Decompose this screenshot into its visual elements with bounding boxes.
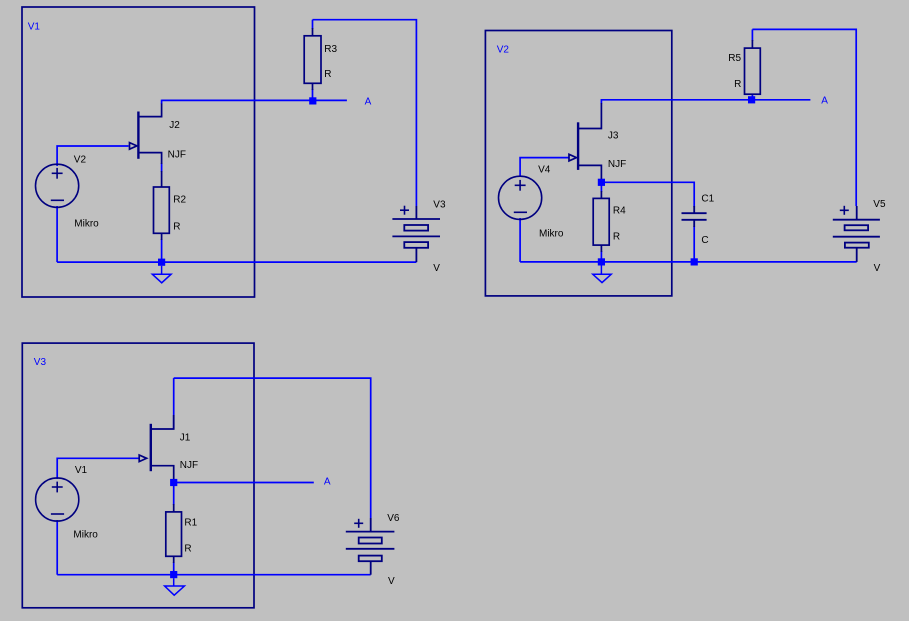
C1 ground junction — [691, 258, 698, 265]
ground symbol (circuit 1) — [152, 266, 171, 283]
resistor R1 — [166, 504, 182, 563]
wire: ground rail (circuit 3) — [57, 574, 371, 576]
ground symbol (circuit 3) — [165, 578, 185, 595]
svg-text:R5: R5 — [728, 53, 741, 64]
svg-text:NJF: NJF — [608, 159, 626, 170]
transistor J2 (NJF) — [130, 104, 162, 165]
capacitor C1 — [682, 206, 707, 227]
svg-text:V: V — [433, 263, 440, 274]
svg-text:A: A — [324, 477, 331, 488]
wire: source junction to node A — [177, 482, 314, 484]
svg-text:V1: V1 — [28, 21, 41, 32]
svg-text:V1: V1 — [75, 465, 88, 476]
wire: drain net top (J1 to battery V6) — [174, 378, 371, 518]
svg-text:R2: R2 — [173, 194, 186, 205]
wire: J3 source junction to R4 — [600, 184, 602, 192]
wire: R4 bottom to ground junction — [600, 251, 602, 262]
svg-text:R: R — [184, 543, 191, 554]
svg-text:A: A — [365, 97, 372, 108]
svg-text:R1: R1 — [184, 518, 197, 529]
svg-text:C1: C1 — [701, 194, 714, 205]
battery V5 — [833, 206, 880, 262]
svg-text:R: R — [324, 69, 331, 80]
svg-text:V2: V2 — [497, 44, 510, 55]
svg-text:V3: V3 — [34, 357, 47, 368]
svg-text:R: R — [173, 221, 180, 232]
ground junction (circuit 3) — [170, 571, 177, 578]
block box V1 — [22, 7, 255, 297]
voltage source V2 (Mikro) — [36, 164, 79, 207]
node A junction (circuit 1) — [309, 97, 316, 104]
svg-text:R: R — [613, 232, 620, 243]
svg-text:V: V — [388, 576, 395, 587]
battery V3 — [392, 206, 440, 262]
voltage source V4 (Mikro) — [498, 176, 541, 219]
ground symbol (circuit 2) — [593, 266, 611, 283]
wire: V4 bottom to ground rail — [519, 218, 521, 262]
wire: gate net (V1 top to J1 gate) — [57, 458, 139, 479]
svg-text:A: A — [821, 96, 828, 107]
ground junction (circuit 1) — [158, 259, 165, 266]
wire: J1 drain lead to top rail — [173, 378, 175, 429]
wire: C1 bottom to ground rail — [693, 226, 695, 262]
wire: source junction to C1 top — [603, 182, 694, 207]
svg-text:Mikro: Mikro — [539, 228, 564, 239]
wire: drain net to node A (circuit 2) — [601, 99, 810, 101]
resistor R4 — [593, 191, 609, 252]
svg-text:J1: J1 — [180, 433, 191, 444]
svg-text:J2: J2 — [169, 120, 180, 131]
resistor R5 — [745, 40, 761, 94]
wire: drain net to node A — [162, 99, 347, 101]
resistor R2 — [154, 171, 170, 240]
wire: gate net (V2 top to J2 gate) — [57, 146, 128, 166]
resistor R3 — [304, 28, 321, 90]
voltage source V1 (Mikro) — [36, 478, 79, 521]
wire: R3 bottom to node A — [312, 89, 314, 100]
svg-text:V6: V6 — [387, 513, 400, 524]
wire: ground rail (bottom) — [57, 261, 416, 263]
wire: R3 top lead stub — [312, 20, 314, 29]
block box V3 — [22, 343, 254, 608]
wire: gate net (V4 top to J3 gate) — [520, 158, 568, 177]
source junction (circuit 2) — [598, 179, 605, 186]
wire: supply top (R3 to battery V3) — [313, 20, 417, 206]
wire: source junction to R1 — [173, 485, 175, 505]
svg-text:V5: V5 — [873, 199, 886, 210]
wire: supply top (R5 to battery V5) — [752, 29, 856, 206]
wire: R5 top lead stub — [751, 29, 753, 41]
svg-text:R4: R4 — [613, 205, 626, 216]
svg-text:V4: V4 — [538, 165, 551, 176]
svg-text:C: C — [701, 235, 708, 246]
svg-text:R: R — [734, 79, 741, 90]
transistor J3 (NJF) — [569, 103, 601, 180]
wire: ground rail (circuit 2) — [520, 261, 857, 263]
wire: J2 drain riser — [161, 100, 163, 104]
wire: J2 source to R2 — [161, 163, 163, 172]
node A junction (circuit 3) — [170, 479, 177, 486]
wire: R2 bottom to ground junction — [161, 239, 163, 262]
svg-text:Mikro: Mikro — [74, 219, 99, 230]
wire: V1 bottom to ground rail — [56, 520, 58, 575]
svg-text:NJF: NJF — [180, 460, 198, 471]
wire: V2 bottom to ground rail — [56, 206, 58, 262]
svg-text:V3: V3 — [433, 199, 446, 210]
transistor J1 (NJF) — [139, 415, 174, 479]
svg-text:V2: V2 — [74, 154, 87, 165]
ground junction (circuit 2) — [598, 258, 605, 265]
wire: J3 drain riser — [600, 99, 602, 104]
wire: R1 bottom to ground junction — [173, 562, 175, 575]
svg-text:J3: J3 — [608, 131, 619, 142]
battery V6 — [346, 518, 395, 575]
wire: R5 bottom to node A — [751, 94, 753, 100]
svg-text:V: V — [874, 263, 881, 274]
svg-text:NJF: NJF — [168, 149, 186, 160]
block box V2 — [485, 31, 671, 296]
svg-text:R3: R3 — [324, 44, 337, 55]
node A junction (circuit 2) — [748, 96, 755, 103]
svg-text:Mikro: Mikro — [73, 530, 98, 541]
